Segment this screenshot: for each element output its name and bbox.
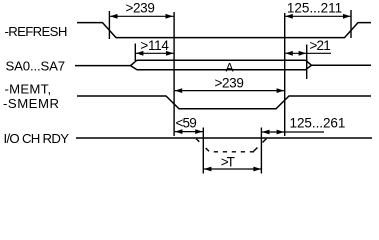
svg-text:-REFRESH: -REFRESH <box>5 24 67 39</box>
svg-text:SA0...SA7: SA0...SA7 <box>6 58 66 73</box>
svg-text:>239: >239 <box>125 1 154 16</box>
svg-text:A: A <box>226 60 234 74</box>
svg-text:>239: >239 <box>214 76 243 91</box>
svg-text:>114: >114 <box>140 38 169 53</box>
svg-text:I/O CH RDY: I/O CH RDY <box>4 131 70 146</box>
svg-text:-MEMT,: -MEMT, <box>5 82 52 97</box>
svg-text:<59: <59 <box>176 116 197 131</box>
svg-text:125...261: 125...261 <box>290 115 346 130</box>
svg-text:125...211: 125...211 <box>287 1 342 16</box>
svg-text:>T: >T <box>221 155 235 170</box>
svg-text:>21: >21 <box>310 38 331 53</box>
svg-text:-SMEMR: -SMEMR <box>3 96 59 111</box>
